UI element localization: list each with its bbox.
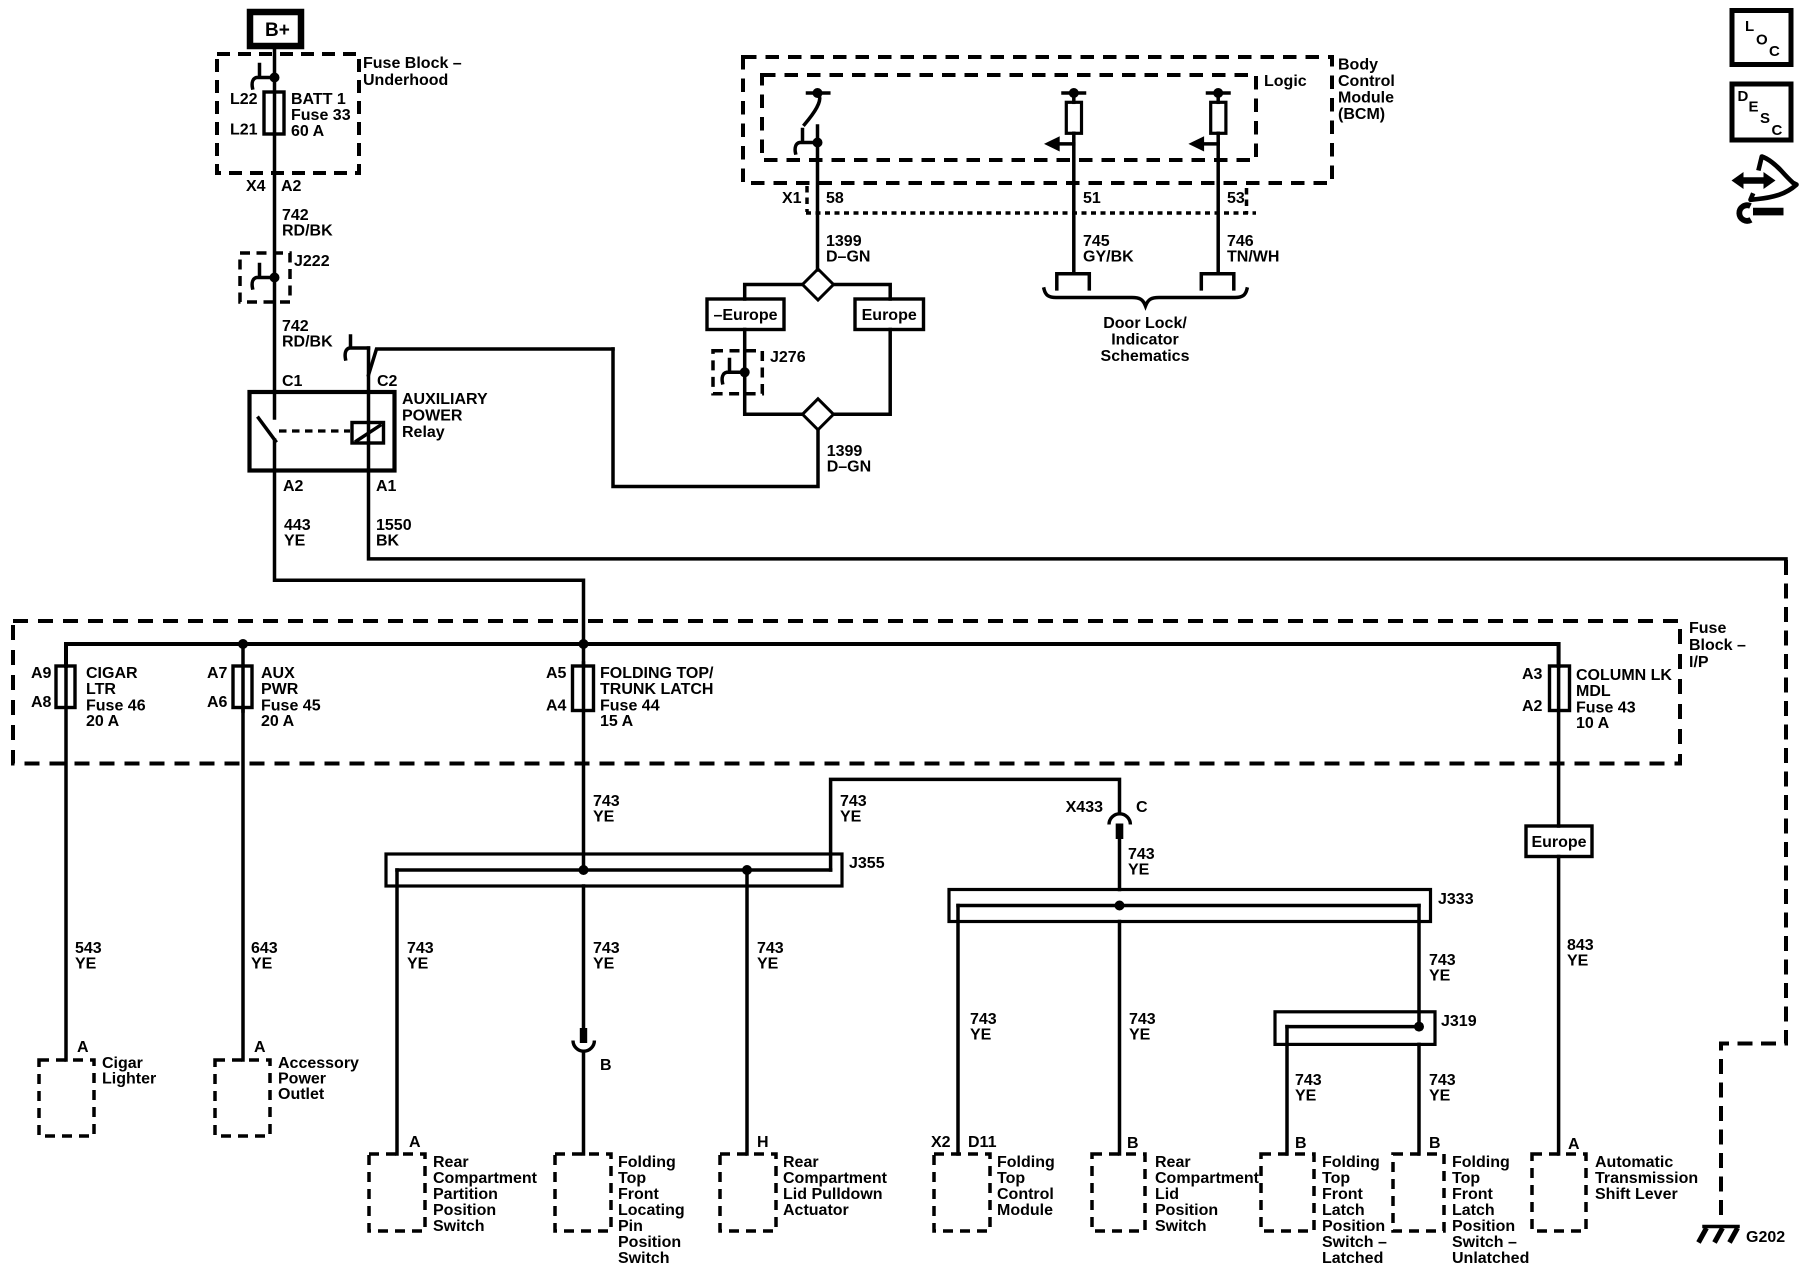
- svg-text:743: 743: [593, 940, 620, 957]
- svg-text:C: C: [1772, 122, 1783, 139]
- fuse block I/P box: [13, 620, 1746, 764]
- svg-text:YE: YE: [1567, 953, 1589, 970]
- svg-text:Position: Position: [618, 1234, 681, 1251]
- splice pack J319: [1275, 1012, 1477, 1045]
- svg-text:Outlet: Outlet: [278, 1086, 325, 1103]
- svg-text:58: 58: [826, 190, 844, 207]
- svg-text:X4: X4: [246, 178, 266, 195]
- wire J333 center drop 743 YE: [1118, 922, 1122, 1155]
- svg-text:Block –: Block –: [1689, 637, 1746, 654]
- svg-text:Top: Top: [1322, 1170, 1350, 1187]
- dashed ground run 1550 BK to G202: [1721, 560, 1786, 1222]
- svg-text:Europe: Europe: [862, 307, 917, 324]
- svg-text:A2: A2: [283, 478, 304, 495]
- svg-text:Folding: Folding: [1452, 1154, 1510, 1171]
- svg-text:A2: A2: [1522, 698, 1543, 715]
- svg-text:743: 743: [407, 940, 434, 957]
- svg-text:Latched: Latched: [1322, 1250, 1383, 1267]
- svg-text:1399: 1399: [826, 233, 862, 250]
- svg-text:X433: X433: [1066, 799, 1103, 816]
- off-page terminal for 746: [1201, 274, 1234, 289]
- svg-text:Transmission: Transmission: [1595, 1170, 1698, 1187]
- wire relay A2 to fuse block I/P: [275, 471, 584, 667]
- svg-text:BK: BK: [376, 533, 400, 550]
- svg-text:D–GN: D–GN: [827, 459, 871, 476]
- svg-text:743: 743: [1429, 952, 1456, 969]
- svg-text:A: A: [254, 1039, 266, 1056]
- svg-text:843: 843: [1567, 937, 1594, 954]
- fuse F33 BATT 1 60A: [230, 91, 351, 140]
- svg-text:Module: Module: [997, 1202, 1053, 1219]
- svg-text:J355: J355: [849, 855, 885, 872]
- svg-text:AUX: AUX: [261, 665, 295, 682]
- rear compartment lid position switch: [1092, 1154, 1260, 1235]
- svg-text:YE: YE: [284, 533, 306, 550]
- wire J333 right drop 743 YE to J319: [1417, 906, 1421, 1027]
- svg-text:YE: YE: [1295, 1088, 1317, 1105]
- fuse F46 CIGAR LTR 20A: [31, 665, 146, 730]
- svg-text:YE: YE: [593, 956, 615, 973]
- battery feed B+: [250, 12, 301, 46]
- svg-text:I/P: I/P: [1689, 654, 1709, 671]
- svg-text:X1: X1: [782, 190, 802, 207]
- option box -Europe: [707, 299, 784, 330]
- svg-text:1550: 1550: [376, 517, 412, 534]
- svg-text:742: 742: [282, 207, 309, 224]
- wire J355 riser to X433: [831, 779, 1120, 870]
- connector at relay C2: [345, 336, 368, 392]
- svg-text:Lid: Lid: [1155, 1186, 1179, 1203]
- junction J333 at X433 wire: [1115, 901, 1125, 911]
- svg-text:Europe: Europe: [1531, 834, 1586, 851]
- fuse F45 AUX PWR 20A: [207, 644, 321, 730]
- svg-text:G202: G202: [1746, 1229, 1785, 1246]
- svg-text:Switch: Switch: [618, 1250, 670, 1267]
- svg-text:COLUMN LK: COLUMN LK: [1576, 667, 1672, 684]
- svg-text:Automatic: Automatic: [1595, 1154, 1673, 1171]
- folding top front locating pin position switch: [555, 1154, 685, 1267]
- svg-text:Accessory: Accessory: [278, 1055, 359, 1072]
- svg-text:A1: A1: [376, 478, 397, 495]
- ground G202: [1699, 1227, 1786, 1247]
- svg-text:A: A: [409, 1134, 421, 1151]
- pointer arrow icon: [1732, 157, 1797, 221]
- svg-text:Fuse 33: Fuse 33: [291, 107, 351, 124]
- svg-text:MDL: MDL: [1576, 683, 1611, 700]
- svg-text:743: 743: [1128, 846, 1155, 863]
- junction J355 at 583: [579, 865, 589, 875]
- svg-text:YE: YE: [970, 1027, 992, 1044]
- svg-text:B: B: [1429, 1135, 1441, 1152]
- wire 843 YE to shift lever: [1557, 857, 1561, 1155]
- connector pin B folding top locating pin switch: [573, 1028, 612, 1154]
- svg-text:Top: Top: [997, 1170, 1025, 1187]
- wire 543 YE cigar lighter: [64, 662, 68, 1060]
- splice pack J355: [386, 854, 885, 886]
- wire fuse44 to splice J355: [582, 663, 586, 870]
- folding top front latch position switch unlatched: [1393, 1154, 1529, 1267]
- svg-text:Partition: Partition: [433, 1186, 498, 1203]
- svg-text:D11: D11: [968, 1134, 997, 1151]
- svg-text:A7: A7: [207, 665, 228, 682]
- off-page terminal for 745: [1057, 274, 1090, 289]
- desc icon: [1732, 84, 1791, 140]
- svg-text:L21: L21: [230, 122, 258, 139]
- svg-text:643: 643: [251, 940, 278, 957]
- svg-text:CIGAR: CIGAR: [86, 665, 138, 682]
- svg-text:E: E: [1749, 99, 1759, 116]
- svg-text:20 A: 20 A: [86, 713, 120, 730]
- svg-text:Relay: Relay: [402, 424, 445, 441]
- wire B+ to fuse block: [273, 46, 277, 134]
- svg-text:Fuse: Fuse: [1689, 620, 1726, 637]
- svg-text:O: O: [1756, 32, 1768, 49]
- svg-text:Switch: Switch: [1155, 1218, 1207, 1235]
- svg-text:A: A: [77, 1039, 89, 1056]
- svg-text:H: H: [757, 1134, 769, 1151]
- relay actuation dashed link: [279, 429, 350, 432]
- svg-text:D: D: [1738, 88, 1749, 105]
- svg-text:YE: YE: [593, 809, 615, 826]
- svg-text:A2: A2: [281, 178, 302, 195]
- label door lock indicator schematics: [1101, 315, 1190, 365]
- svg-text:A5: A5: [546, 665, 567, 682]
- svg-text:YE: YE: [251, 956, 273, 973]
- svg-text:Rear: Rear: [1155, 1154, 1191, 1171]
- wire -Europe down to lower diamond: [745, 330, 803, 415]
- auxiliary power relay: [250, 391, 488, 471]
- svg-text:746: 746: [1227, 233, 1254, 250]
- loc icon: [1732, 11, 1791, 65]
- svg-text:Underhood: Underhood: [363, 72, 448, 89]
- svg-text:YE: YE: [1429, 1088, 1451, 1105]
- BCM switch pin 58: [805, 88, 829, 143]
- svg-text:L: L: [1745, 18, 1754, 35]
- svg-text:743: 743: [1429, 1072, 1456, 1089]
- svg-text:–Europe: –Europe: [713, 307, 777, 324]
- BCM driver output 53: [1188, 88, 1229, 274]
- svg-text:J276: J276: [770, 349, 806, 366]
- svg-text:Rear: Rear: [783, 1154, 819, 1171]
- svg-text:Fuse Block –: Fuse Block –: [363, 55, 462, 72]
- rear compartment lid pulldown actuator: [720, 1154, 888, 1231]
- svg-text:J333: J333: [1438, 891, 1474, 908]
- option box Europe right: [1526, 826, 1592, 857]
- svg-text:A: A: [1568, 1136, 1580, 1153]
- svg-text:POWER: POWER: [402, 408, 463, 425]
- svg-text:YE: YE: [840, 809, 862, 826]
- svg-text:B: B: [1295, 1135, 1307, 1152]
- folding top front latch position switch latched: [1261, 1154, 1387, 1267]
- splice J276: [713, 349, 806, 394]
- svg-text:X2: X2: [931, 1134, 951, 1151]
- connector X1 pin row: [782, 186, 1256, 214]
- svg-text:D–GN: D–GN: [826, 249, 870, 266]
- svg-text:RD/BK: RD/BK: [282, 223, 333, 240]
- wire lower diamond to relay C2: [613, 349, 818, 487]
- svg-text:B: B: [1127, 1135, 1139, 1152]
- connector inside BCM on pin 58 wire: [795, 130, 822, 154]
- svg-text:443: 443: [284, 517, 311, 534]
- svg-text:Unlatched: Unlatched: [1452, 1250, 1529, 1267]
- svg-text:Rear: Rear: [433, 1154, 469, 1171]
- option box Europe: [855, 299, 924, 330]
- bus bar in fuse block I/P: [66, 644, 1559, 666]
- wire J355 left drop 743 YE: [395, 870, 399, 1154]
- svg-text:745: 745: [1083, 233, 1110, 250]
- svg-text:A8: A8: [31, 694, 52, 711]
- svg-text:Switch –: Switch –: [1452, 1234, 1517, 1251]
- svg-text:C: C: [1136, 799, 1148, 816]
- svg-text:Position: Position: [1155, 1202, 1218, 1219]
- svg-text:Compartment: Compartment: [1155, 1170, 1260, 1187]
- svg-text:FOLDING TOP/: FOLDING TOP/: [600, 665, 714, 682]
- svg-text:Front: Front: [1322, 1186, 1364, 1203]
- svg-text:AUXILIARY: AUXILIARY: [402, 391, 488, 408]
- wire Europe down to lower diamond: [834, 330, 891, 415]
- svg-text:PWR: PWR: [261, 681, 299, 698]
- svg-text:742: 742: [282, 318, 309, 335]
- wire diamond to -Europe: [745, 285, 803, 300]
- svg-text:YE: YE: [1129, 1027, 1151, 1044]
- accessory power outlet: [215, 1055, 359, 1136]
- svg-text:Compartment: Compartment: [783, 1170, 888, 1187]
- svg-text:Front: Front: [618, 1186, 660, 1203]
- svg-text:Folding: Folding: [618, 1154, 676, 1171]
- splice J222: [240, 253, 330, 302]
- junction on bus at folding top fuse: [579, 639, 589, 649]
- svg-text:743: 743: [970, 1011, 997, 1028]
- fuse F44 FOLDING TOP/TRUNK LATCH 15A: [546, 665, 714, 730]
- svg-text:B: B: [600, 1057, 612, 1074]
- BCM driver output 51: [1044, 88, 1085, 274]
- svg-text:Shift Lever: Shift Lever: [1595, 1186, 1678, 1203]
- relay coil: [352, 392, 384, 471]
- svg-text:Position: Position: [1322, 1218, 1385, 1235]
- svg-text:Switch –: Switch –: [1322, 1234, 1387, 1251]
- svg-text:TN/WH: TN/WH: [1227, 249, 1279, 266]
- svg-text:C1: C1: [282, 373, 303, 390]
- wire 643 YE accessory outlet: [241, 708, 245, 1061]
- svg-text:Folding: Folding: [997, 1154, 1055, 1171]
- svg-text:Top: Top: [1452, 1170, 1480, 1187]
- svg-text:Latch: Latch: [1322, 1202, 1365, 1219]
- svg-text:BATT 1: BATT 1: [291, 91, 346, 108]
- folding top control module: [934, 1154, 1055, 1231]
- wire fuse43 to Europe box: [1557, 644, 1561, 826]
- svg-text:Front: Front: [1452, 1186, 1494, 1203]
- svg-text:743: 743: [840, 793, 867, 810]
- rear compartment partition position switch: [369, 1154, 538, 1235]
- wire J333 left drop 743 YE to control module: [956, 906, 960, 1155]
- svg-text:J222: J222: [294, 253, 330, 270]
- junction J319: [1414, 1022, 1424, 1032]
- svg-text:Cigar: Cigar: [102, 1055, 143, 1072]
- svg-text:Pin: Pin: [618, 1218, 643, 1235]
- wire J319 left drop 743 YE: [1285, 1027, 1289, 1154]
- svg-text:YE: YE: [1128, 862, 1150, 879]
- svg-text:Lid Pulldown: Lid Pulldown: [783, 1186, 883, 1203]
- svg-text:Body: Body: [1338, 57, 1378, 74]
- svg-text:Position: Position: [433, 1202, 496, 1219]
- svg-text:20 A: 20 A: [261, 713, 295, 730]
- svg-text:Control: Control: [1338, 73, 1395, 90]
- svg-text:Actuator: Actuator: [783, 1202, 849, 1219]
- fuse F43 COLUMN LK MDL 10A: [1522, 666, 1672, 732]
- svg-text:53: 53: [1227, 190, 1245, 207]
- svg-text:S: S: [1760, 110, 1770, 127]
- svg-text:1399: 1399: [827, 443, 863, 460]
- lower diamond node: [803, 399, 834, 430]
- svg-text:J319: J319: [1441, 1013, 1477, 1030]
- wire fuse33 to relay C1: [273, 134, 277, 392]
- svg-text:Locating: Locating: [618, 1202, 685, 1219]
- splice pack J333: [949, 890, 1474, 922]
- svg-text:Indicator: Indicator: [1111, 332, 1179, 349]
- wire J355 right drop 743 YE: [745, 870, 749, 1154]
- body control module BCM box: [743, 57, 1395, 184]
- wire J319 right drop 743 YE: [1417, 1044, 1421, 1154]
- svg-text:743: 743: [1129, 1011, 1156, 1028]
- junction on bus at aux pwr fuse: [238, 639, 248, 649]
- connector X433 pin C: [1066, 799, 1148, 890]
- svg-text:743: 743: [757, 940, 784, 957]
- cigar lighter: [39, 1055, 156, 1136]
- svg-text:743: 743: [593, 793, 620, 810]
- svg-text:Control: Control: [997, 1186, 1054, 1203]
- svg-text:743: 743: [1295, 1072, 1322, 1089]
- svg-text:A6: A6: [207, 694, 228, 711]
- brace door lock schematics: [1044, 289, 1247, 306]
- svg-text:C: C: [1769, 43, 1780, 60]
- svg-text:YE: YE: [1429, 968, 1451, 985]
- logic box: [762, 73, 1307, 160]
- svg-text:Schematics: Schematics: [1101, 348, 1190, 365]
- svg-text:60 A: 60 A: [291, 123, 325, 140]
- wire 1399 splice into C2: [369, 349, 614, 375]
- svg-text:Logic: Logic: [1264, 73, 1307, 90]
- fuse block underhood box: [217, 54, 462, 173]
- svg-text:10 A: 10 A: [1576, 715, 1610, 732]
- svg-text:Top: Top: [618, 1170, 646, 1187]
- svg-text:Module: Module: [1338, 90, 1394, 107]
- svg-text:Fuse 43: Fuse 43: [1576, 700, 1636, 717]
- svg-text:(BCM): (BCM): [1338, 106, 1385, 123]
- svg-text:C2: C2: [377, 373, 398, 390]
- svg-text:Fuse 45: Fuse 45: [261, 698, 321, 715]
- svg-text:GY/BK: GY/BK: [1083, 249, 1134, 266]
- svg-text:Position: Position: [1452, 1218, 1515, 1235]
- wire diamond to Europe: [834, 285, 891, 300]
- svg-text:51: 51: [1083, 190, 1101, 207]
- junction J355 at 747: [742, 865, 752, 875]
- svg-text:Compartment: Compartment: [433, 1170, 538, 1187]
- svg-text:Lighter: Lighter: [102, 1071, 156, 1088]
- svg-text:15 A: 15 A: [600, 713, 634, 730]
- svg-text:TRUNK LATCH: TRUNK LATCH: [600, 681, 713, 698]
- svg-text:Latch: Latch: [1452, 1202, 1495, 1219]
- svg-text:Fuse 46: Fuse 46: [86, 698, 146, 715]
- svg-text:Folding: Folding: [1322, 1154, 1380, 1171]
- svg-text:Fuse 44: Fuse 44: [600, 698, 660, 715]
- relay switch contact: [259, 392, 276, 471]
- svg-text:YE: YE: [75, 956, 97, 973]
- wire J355 center drop 743 YE: [582, 886, 586, 1035]
- svg-text:LTR: LTR: [86, 681, 116, 698]
- svg-text:L22: L22: [230, 91, 258, 108]
- automatic transmission shift lever: [1532, 1154, 1698, 1231]
- upper diamond node: [803, 269, 834, 300]
- svg-text:543: 543: [75, 940, 102, 957]
- svg-text:A4: A4: [546, 698, 567, 715]
- svg-text:A9: A9: [31, 665, 52, 682]
- connector in fuse block underhood: [252, 65, 279, 89]
- svg-text:Door Lock/: Door Lock/: [1103, 315, 1187, 332]
- svg-text:B+: B+: [265, 20, 290, 41]
- svg-text:RD/BK: RD/BK: [282, 334, 333, 351]
- wire pin 58 down to diamond: [816, 143, 820, 271]
- svg-text:Switch: Switch: [433, 1218, 485, 1235]
- svg-text:YE: YE: [757, 956, 779, 973]
- svg-text:YE: YE: [407, 956, 429, 973]
- svg-text:A3: A3: [1522, 666, 1543, 683]
- svg-text:Power: Power: [278, 1071, 326, 1088]
- wire relay A1 to right side 1550 BK: [369, 471, 1787, 559]
